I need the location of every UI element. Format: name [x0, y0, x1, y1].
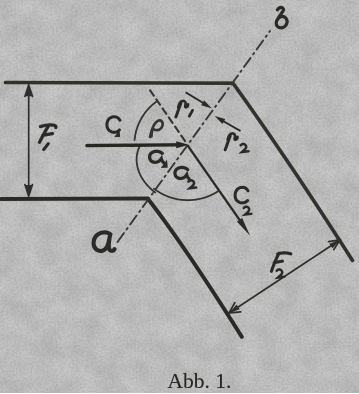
label C2 [235, 187, 251, 214]
label p2 [225, 133, 248, 152]
label p1 [176, 101, 193, 117]
caption Abb. 1. [168, 369, 232, 394]
arc angle alpha1 [137, 146, 156, 192]
node a (section plane end label) [94, 232, 115, 251]
arc angle phi [135, 101, 158, 140]
label alpha1 [150, 151, 168, 167]
dimension F1 double-headed arrow [25, 85, 33, 197]
wall: bottom horizontal channel wall [1, 197, 148, 201]
wall: lower diagonal channel wall [148, 199, 242, 337]
dashed backward extension of C2 (angle phi leg) [149, 89, 185, 141]
arc angle alpha2 [154, 189, 219, 200]
label C1 [107, 117, 120, 137]
vector p1 pressure arrow [186, 92, 212, 108]
vector C2 velocity arrow [188, 146, 250, 236]
label F2 (value label) [271, 253, 290, 278]
label alpha2 [175, 167, 196, 188]
label F1 (value label) [40, 125, 56, 150]
label phi [150, 120, 163, 137]
node b (section plane end label) [276, 7, 287, 27]
axis line a-b (dash-dot centerline) [118, 31, 271, 242]
dimension F2 double-headed arrow [229, 240, 340, 313]
vector p2 pressure arrow [215, 116, 241, 131]
vector C1 velocity arrow [87, 141, 189, 148]
wall: upper diagonal channel wall [233, 83, 353, 260]
wall: top horizontal channel wall [6, 81, 234, 85]
